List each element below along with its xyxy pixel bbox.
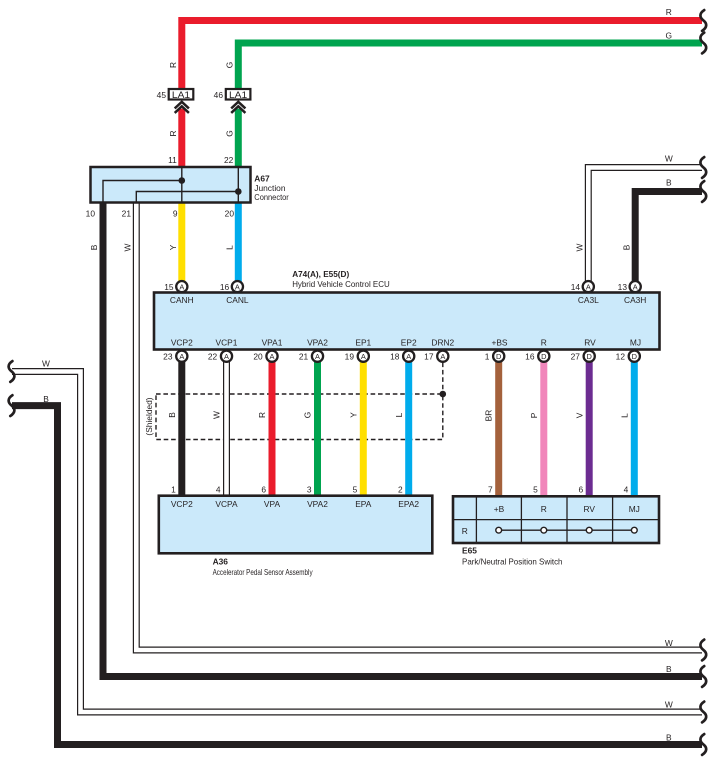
svg-text:B: B (666, 732, 672, 742)
svg-text:W: W (574, 243, 584, 251)
svg-text:VPA1: VPA1 (262, 338, 283, 348)
svg-text:W: W (212, 411, 222, 419)
svg-text:Hybrid Vehicle Control ECU: Hybrid Vehicle Control ECU (292, 279, 390, 289)
svg-text:21: 21 (122, 208, 132, 218)
wire B, left break to bottom right (12, 406, 702, 745)
wire B, A67 pin 10 to bottom right (103, 201, 702, 677)
svg-text:G: G (303, 412, 313, 419)
ECU pin name labels top (170, 295, 646, 305)
wire L, A67 pin 20 to ECU CANL (235, 201, 242, 283)
svg-text:R: R (168, 130, 178, 136)
label A36 Accelerator Pedal Sensor Assembly (213, 557, 314, 578)
pin 17 (A) DRN2 (424, 351, 448, 362)
svg-text:R: R (462, 526, 468, 536)
svg-text:D: D (632, 352, 637, 361)
svg-text:G: G (224, 130, 234, 137)
svg-text:D: D (496, 352, 501, 361)
E65 grid lines (453, 496, 659, 543)
wire L, ECU EP2 to A36 pin 2 (405, 350, 412, 497)
svg-text:V: V (574, 412, 584, 418)
wire R, ECU VPA1 to A36 pin 6 (269, 350, 276, 497)
svg-text:Accelerator Pedal Sensor Assem: Accelerator Pedal Sensor Assembly (213, 567, 314, 577)
svg-text:A: A (361, 352, 366, 361)
svg-text:BR: BR (483, 410, 493, 422)
svg-text:+B: +B (494, 504, 505, 514)
svg-text:R: R (541, 338, 547, 348)
svg-text:15: 15 (164, 282, 174, 292)
svg-text:Connector: Connector (254, 192, 289, 202)
connector 45 LA1 (157, 89, 194, 100)
svg-text:MJ: MJ (630, 338, 641, 348)
svg-text:L: L (619, 413, 629, 418)
svg-text:3: 3 (307, 485, 312, 495)
svg-text:6: 6 (579, 485, 584, 495)
pin 16 (D) R (525, 351, 549, 362)
svg-text:CA3H: CA3H (624, 295, 646, 305)
svg-text:5: 5 (533, 485, 538, 495)
chevron arrows below 45 LA1 (175, 102, 189, 113)
svg-text:7: 7 (488, 485, 493, 495)
pin 1 (D) +BS (485, 351, 505, 362)
A67 internal bus: pin 11 to pin 9 (181, 168, 183, 202)
junction dot A67 pin 11/9/10 (179, 177, 186, 184)
svg-text:2: 2 (398, 485, 403, 495)
svg-text:6: 6 (261, 485, 266, 495)
svg-text:21: 21 (299, 352, 309, 362)
svg-text:(Shielded): (Shielded) (144, 397, 154, 435)
wire V, ECU RV to E65 pin 6 (586, 350, 593, 498)
svg-text:A74(A), E55(D): A74(A), E55(D) (292, 269, 349, 279)
svg-text:10: 10 (86, 208, 96, 218)
junction connector A67 box (91, 167, 251, 203)
svg-text:R: R (666, 7, 672, 17)
svg-text:19: 19 (345, 352, 355, 362)
svg-text:VCP2: VCP2 (171, 338, 193, 348)
break symbol wire W left (9, 361, 15, 382)
svg-text:G: G (666, 31, 673, 41)
svg-text:20: 20 (253, 352, 263, 362)
svg-text:B: B (666, 664, 672, 674)
svg-text:VCPA: VCPA (215, 499, 238, 509)
svg-text:20: 20 (225, 208, 235, 218)
svg-text:EPA2: EPA2 (398, 499, 419, 509)
svg-text:B: B (621, 244, 631, 250)
svg-text:LA1: LA1 (229, 90, 247, 100)
break symbol wire G top right (700, 33, 706, 54)
wire G, LA1 to A67 pin 22 (235, 109, 242, 169)
svg-text:RV: RV (584, 338, 596, 348)
break symbol wire W top right (700, 157, 706, 178)
break symbol wire B bottom right 1 (700, 666, 706, 687)
break symbol wire W bottom right 1 (700, 640, 706, 661)
svg-text:W: W (665, 154, 673, 164)
svg-text:R: R (541, 504, 547, 514)
pin 21 (A) VPA2 (299, 351, 323, 362)
svg-text:W: W (122, 243, 132, 251)
svg-text:17: 17 (424, 352, 434, 362)
svg-text:D: D (587, 352, 592, 361)
wire G (top) to LA1 (238, 43, 702, 89)
svg-text:G: G (224, 62, 234, 69)
svg-text:Y: Y (168, 244, 178, 250)
svg-text:DRN2: DRN2 (431, 338, 454, 348)
wire DRN2 shield drain (dashed) (442, 363, 444, 395)
svg-text:VPA: VPA (264, 499, 281, 509)
svg-text:R: R (257, 412, 267, 418)
svg-text:A: A (440, 352, 445, 361)
pin 12 (D) MJ (616, 351, 640, 362)
label A67 Junction Connector (254, 173, 289, 202)
svg-text:18: 18 (390, 352, 400, 362)
accelerator pedal sensor assembly A36 box (159, 496, 433, 554)
svg-text:W: W (42, 358, 50, 368)
svg-text:A: A (224, 352, 229, 361)
svg-text:L: L (224, 245, 234, 250)
svg-text:VCP2: VCP2 (171, 499, 193, 509)
wire Y, A67 pin 9 to ECU CANH (178, 201, 185, 283)
svg-text:CANH: CANH (170, 295, 194, 305)
ECU pin name labels bottom (171, 338, 641, 348)
svg-text:Park/Neutral Position Switch: Park/Neutral Position Switch (462, 557, 563, 567)
svg-text:VPA2: VPA2 (307, 499, 328, 509)
svg-text:13: 13 (618, 282, 628, 292)
E65 contact points (496, 527, 637, 533)
pin 15 (A) CANH (164, 281, 187, 292)
wire W, ECU CA3L to top right (588, 168, 702, 293)
svg-text:W: W (665, 700, 673, 710)
pin 16 (A) CANL (220, 281, 243, 292)
svg-text:46: 46 (214, 90, 224, 100)
break symbol wire B top right (700, 181, 706, 202)
svg-text:4: 4 (216, 485, 221, 495)
svg-text:12: 12 (616, 352, 626, 362)
svg-text:22: 22 (224, 155, 234, 165)
svg-text:B: B (43, 394, 49, 404)
wire G, ECU VPA2 to A36 pin 3 (314, 350, 321, 497)
wire W, A67 pin 21 to bottom right (136, 201, 702, 650)
svg-text:9: 9 (173, 208, 178, 218)
pin 27 (D) RV (571, 351, 595, 362)
A36 pin name labels (171, 499, 420, 509)
svg-text:R: R (168, 62, 178, 68)
wire W, ECU VCP1 to A36 pin 4 (223, 350, 230, 497)
svg-text:A: A (235, 282, 240, 291)
connector 46 LA1 (214, 89, 251, 100)
svg-text:A67: A67 (254, 173, 270, 183)
junction dot shield/DRN2 (440, 391, 447, 398)
pin 22 (A) VCP1 (208, 351, 232, 362)
park/neutral position switch E65 box (453, 496, 659, 543)
svg-text:B: B (666, 178, 672, 188)
pin 19 (A) EP1 (345, 351, 369, 362)
svg-text:P: P (529, 412, 539, 418)
svg-text:14: 14 (571, 282, 581, 292)
A67 internal bus: branch to pin 21 (136, 192, 238, 203)
svg-text:CANL: CANL (226, 295, 249, 305)
svg-text:A: A (633, 282, 638, 291)
wire L, ECU MJ to E65 pin 4 (631, 350, 638, 498)
svg-text:5: 5 (353, 485, 358, 495)
svg-text:LA1: LA1 (172, 90, 190, 100)
svg-text:A: A (315, 352, 320, 361)
svg-text:27: 27 (571, 352, 581, 362)
wire W, left break to bottom right (12, 372, 702, 713)
break symbol wire W bottom right 2 (700, 702, 706, 723)
hybrid vehicle control ECU A74(A), E55(D) box (154, 293, 660, 350)
svg-text:W: W (665, 638, 673, 648)
svg-text:+BS: +BS (491, 338, 507, 348)
break symbol wire R top right (700, 10, 706, 31)
svg-text:A: A (179, 352, 184, 361)
A67 pin numbers bottom (86, 208, 235, 218)
wire Y, ECU EP1 to A36 pin 5 (360, 350, 367, 497)
A36 pin numbers (171, 485, 403, 495)
E65 contact line (R row) (499, 529, 635, 531)
svg-text:4: 4 (624, 485, 629, 495)
svg-text:VPA2: VPA2 (307, 338, 328, 348)
label E65 Park/Neutral Position Switch (462, 546, 563, 567)
svg-text:16: 16 (525, 352, 535, 362)
svg-text:A: A (179, 282, 184, 291)
svg-text:A: A (270, 352, 275, 361)
wire R, LA1 to A67 pin 11 (178, 109, 185, 169)
A67 internal bus: pin 22 to pin 20 (237, 168, 239, 202)
svg-text:VCP1: VCP1 (216, 338, 238, 348)
svg-text:23: 23 (163, 352, 173, 362)
svg-text:EPA: EPA (355, 499, 372, 509)
wire P, ECU R to E65 pin 5 (540, 350, 547, 498)
svg-text:1: 1 (485, 352, 490, 362)
svg-text:EP2: EP2 (401, 338, 417, 348)
chevron arrows below 46 LA1 (231, 102, 245, 113)
svg-text:A: A (406, 352, 411, 361)
svg-text:D: D (541, 352, 546, 361)
shield (dashed) around accelerator sensor wiring (156, 394, 443, 440)
pin 23 (A) VCP2 (163, 351, 187, 362)
wire B, ECU CA3H to top right (635, 192, 702, 293)
pin 20 (A) VPA1 (253, 351, 277, 362)
pin 14 (A) CA3L (571, 281, 594, 292)
svg-text:EP1: EP1 (355, 338, 371, 348)
label A74(A), E55(D) Hybrid Vehicle Control ECU (292, 269, 390, 289)
wire R (battery feed, top) to LA1 (182, 21, 702, 90)
svg-text:45: 45 (157, 90, 167, 100)
wire B, ECU VCP2 to A36 pin 1 (178, 350, 185, 497)
svg-text:B: B (89, 244, 99, 250)
pin 13 (A) CA3H (618, 281, 641, 292)
svg-text:1: 1 (171, 485, 176, 495)
svg-text:MJ: MJ (629, 504, 640, 514)
A67 pin numbers top (168, 155, 234, 165)
svg-text:Y: Y (348, 412, 358, 418)
E65 cell labels (462, 504, 640, 536)
svg-text:B: B (167, 412, 177, 418)
junction dot A67 pin 22/20/21 (235, 188, 242, 195)
break symbol wire B bottom right 2 (700, 734, 706, 755)
wire BR, ECU +BS to E65 pin 7 (495, 350, 502, 498)
svg-text:E65: E65 (462, 546, 477, 556)
E65 pin numbers (488, 485, 629, 495)
svg-text:16: 16 (220, 282, 230, 292)
svg-text:11: 11 (168, 155, 177, 165)
svg-text:L: L (394, 412, 404, 417)
A67 internal bus: branch to pin 10 (103, 181, 182, 203)
svg-text:RV: RV (583, 504, 595, 514)
break symbol wire B left (9, 395, 15, 416)
svg-text:22: 22 (208, 352, 218, 362)
svg-text:CA3L: CA3L (578, 295, 599, 305)
svg-text:A36: A36 (213, 557, 229, 567)
pin 18 (A) EP2 (390, 351, 414, 362)
svg-text:A: A (586, 282, 591, 291)
